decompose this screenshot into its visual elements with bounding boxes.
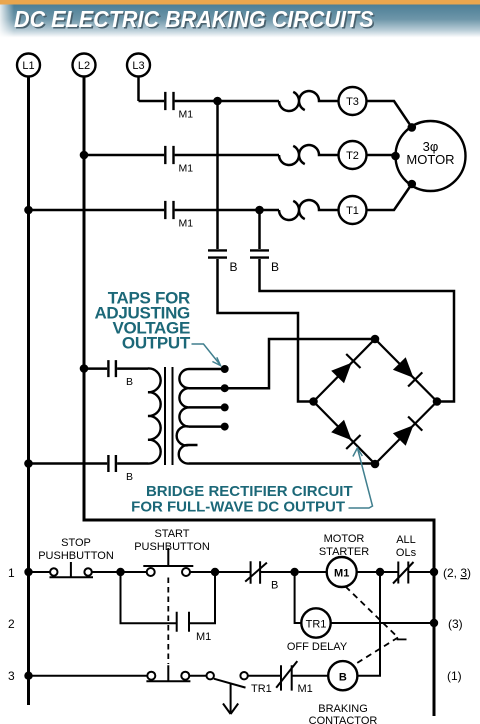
svg-text:M1: M1 [179,162,194,174]
svg-text:FOR FULL-WAVE DC OUTPUT: FOR FULL-WAVE DC OUTPUT [131,499,345,516]
svg-text:T3: T3 [346,96,359,108]
svg-text:B: B [271,580,278,592]
svg-text:M1: M1 [334,568,349,580]
svg-text:OUTPUT: OUTPUT [122,333,191,352]
svg-text:MOTOR: MOTOR [324,533,365,545]
svg-text:OFF DELAY: OFF DELAY [287,641,348,653]
svg-text:M1: M1 [179,108,194,120]
svg-text:TR1: TR1 [251,683,272,695]
svg-text:ALL: ALL [396,534,416,546]
svg-text:B: B [230,260,238,274]
svg-text:B: B [126,376,133,388]
svg-text:BRAKING: BRAKING [318,703,368,715]
svg-text:TR1: TR1 [306,619,327,631]
svg-text:L3: L3 [132,60,144,72]
svg-text:M1: M1 [298,683,313,695]
svg-text:(1): (1) [447,669,462,683]
svg-text:START: START [154,528,189,540]
svg-text:M1: M1 [179,217,194,229]
svg-text:B: B [126,471,133,483]
svg-text:DC ELECTRIC BRAKING CIRCUITS: DC ELECTRIC BRAKING CIRCUITS [14,6,374,32]
svg-text:PUSHBUTTON: PUSHBUTTON [38,550,114,562]
svg-text:(2, 3): (2, 3) [443,566,471,580]
svg-text:STOP: STOP [61,537,91,549]
svg-text:PUSHBUTTON: PUSHBUTTON [134,541,210,553]
svg-text:CONTACTOR: CONTACTOR [309,715,378,724]
svg-text:OLs: OLs [396,547,417,559]
svg-text:L2: L2 [78,60,90,72]
svg-text:M1: M1 [196,631,211,643]
svg-text:2: 2 [8,617,15,631]
svg-text:(3): (3) [448,617,463,631]
svg-text:T1: T1 [346,205,359,217]
svg-text:T2: T2 [346,150,359,162]
svg-text:B: B [271,260,279,274]
svg-text:L1: L1 [22,60,34,72]
svg-text:1: 1 [8,566,15,580]
svg-text:STARTER: STARTER [319,546,369,558]
svg-text:MOTOR: MOTOR [406,152,454,167]
svg-text:B: B [339,672,347,684]
svg-text:BRIDGE RECTIFIER CIRCUIT: BRIDGE RECTIFIER CIRCUIT [146,483,353,500]
svg-text:3: 3 [8,669,15,683]
